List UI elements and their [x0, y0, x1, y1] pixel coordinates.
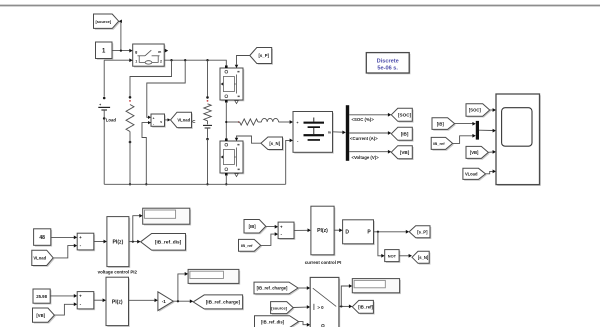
svg-text:[s_N]: [s_N]	[418, 255, 429, 260]
junction PI1 out	[132, 240, 134, 242]
svg-text:IB_ref: IB_ref	[241, 243, 253, 248]
wire gain to goto [IB_ref_charge]	[173, 300, 190, 302]
wire bus to goto [SOC]	[349, 114, 388, 116]
junction node A	[120, 49, 122, 51]
sum block S1	[79, 235, 96, 252]
filter inductor L1	[258, 121, 262, 123]
wire Q1 source to node B	[225, 103, 227, 139]
svg-text:g: g	[135, 50, 137, 54]
wire PI3 to PWM generator	[334, 229, 339, 231]
wire [IB] to sum3	[266, 225, 275, 227]
PI controller voltage control PI2	[108, 218, 130, 268]
powergui block Discrete	[368, 54, 411, 74]
goto tag [IB_ref_dis]	[142, 235, 187, 252]
from tag [IB] bottom	[245, 221, 267, 235]
wire charge to switch	[298, 287, 307, 289]
svg-text:[IB]: [IB]	[401, 132, 409, 137]
from tag [s_P] top	[251, 49, 273, 65]
voltage measurement block VM1	[152, 115, 166, 127]
goto tag [IB]	[393, 129, 414, 142]
wire PI out to goto [IB_ref_dis]	[129, 241, 138, 243]
wire dis to switch	[299, 322, 307, 325]
logic NOT block	[386, 251, 400, 263]
svg-text:VLoad: VLoad	[177, 118, 190, 123]
wire sum1 to PI controller	[94, 241, 104, 243]
svg-text:48: 48	[39, 235, 45, 241]
scope block	[497, 95, 541, 186]
svg-text:+: +	[280, 224, 283, 229]
wire voltage measurement minus to rail	[142, 123, 151, 185]
svg-text:5e-06 s.: 5e-06 s.	[377, 66, 398, 72]
svg-text:[source]: [source]	[271, 305, 287, 310]
svg-text:-1: -1	[162, 299, 167, 304]
wire 25.98 to sum2	[50, 295, 74, 297]
wire switch to goto [IB_ref]	[339, 305, 349, 307]
goto tag [s_P]	[411, 227, 432, 239]
wire Q2 source to rail	[225, 176, 227, 185]
svg-text:[IB_ref_dis]: [IB_ref_dis]	[261, 319, 285, 324]
svg-text:[VB]: [VB]	[470, 150, 479, 155]
from tag VLoad scope	[464, 170, 487, 181]
wire from [s_N] to Q2 gate	[237, 136, 261, 143]
wire [SOC] to scope	[490, 109, 493, 111]
svg-text:<Voltage (V)>: <Voltage (V)>	[352, 155, 380, 160]
sum block S3	[279, 223, 295, 240]
from tag [IB_ref_dis] bottom	[256, 317, 300, 327]
svg-text:[s_N]: [s_N]	[269, 141, 280, 146]
wire source to switch	[293, 306, 307, 308]
svg-text:+: +	[79, 294, 82, 299]
PI controller 2	[107, 279, 130, 327]
dc voltage source Load	[103, 60, 105, 96]
breaker m output stub	[165, 49, 168, 53]
svg-text:[IB_ref_charge]: [IB_ref_charge]	[257, 286, 288, 291]
junction node B	[225, 121, 227, 123]
goto tag [IB_ref_charge]	[195, 296, 244, 310]
breaker switch SW1	[134, 45, 166, 67]
svg-text:[IB]: [IB]	[249, 224, 257, 229]
wire switch to display 3	[341, 286, 349, 306]
svg-text:Discrete: Discrete	[377, 58, 399, 64]
svg-text:25.98: 25.98	[36, 294, 47, 299]
wire to voltage measurement plus	[147, 60, 185, 117]
wire rail to battery minus	[286, 140, 290, 184]
svg-text:NOT: NOT	[388, 254, 397, 259]
wire sum3 to PI controller 3	[294, 229, 308, 231]
wire bus to goto [VB]	[349, 151, 388, 153]
snubber capacitor C1	[207, 121, 209, 125]
goto tag [s_N]	[413, 253, 430, 265]
ground rail wire	[104, 183, 286, 185]
bus selector	[346, 105, 349, 161]
wire from [s_P] to Q1 gate	[237, 56, 250, 65]
snubber resistor R2	[206, 96, 209, 99]
from tag [VB] bottom	[34, 309, 56, 323]
goto tag VLoad	[172, 114, 193, 129]
PWM generator block D P	[344, 221, 375, 245]
wire [IB] to mux	[455, 123, 473, 125]
svg-text:PI(z): PI(z)	[112, 299, 123, 305]
wire constant 1 to breaker gate	[112, 50, 130, 52]
svg-text:<SOC (%)>: <SOC (%)>	[352, 117, 375, 122]
svg-text:[IB_ref_charge]: [IB_ref_charge]	[206, 300, 241, 305]
wire from node A to goto [source]	[120, 21, 122, 50]
from tag [s_N] top	[262, 138, 284, 151]
svg-text:[IB]: [IB]	[437, 121, 445, 126]
PI controller current control PI	[312, 208, 335, 257]
sum block S2	[79, 293, 96, 310]
top border line	[0, 5, 600, 7]
svg-text:PI(z): PI(z)	[317, 228, 328, 234]
wire NOT to goto [s_N]	[399, 255, 409, 257]
wire [VB] to sum2 minus	[54, 304, 74, 315]
wire [VB] to scope	[488, 151, 493, 153]
junction switch out	[340, 305, 342, 307]
wire PI out to display 1	[133, 216, 140, 242]
wire bus to goto [IB]	[349, 132, 388, 134]
wire Load to ground rail	[103, 118, 105, 184]
wire PI2 to gain	[129, 299, 155, 301]
from tag [source] bottom	[272, 303, 295, 315]
wire mux to scope	[479, 129, 493, 131]
junction PWM out	[377, 231, 379, 233]
junction gain out	[177, 300, 179, 302]
from tag [SOC] scope	[467, 105, 491, 117]
wire IB_ref to sum3 minus	[261, 234, 275, 245]
wire VM1 to goto VLoad	[165, 119, 168, 121]
svg-text:2: 2	[160, 60, 162, 64]
from tag [IB_ref_charge] bottom	[255, 283, 299, 295]
wire sum2 to PI controller 2	[94, 299, 103, 301]
from tag IB_ref scope	[433, 139, 454, 151]
svg-text:VLoad: VLoad	[33, 256, 46, 261]
svg-text:[IB_ref_dis]: [IB_ref_dis]	[155, 240, 182, 246]
wire gain to display 2	[178, 274, 185, 301]
goto tag [source]	[95, 15, 120, 29]
constant block 25.98	[34, 290, 51, 304]
svg-text:current control PI: current control PI	[305, 260, 342, 265]
svg-text:v: v	[160, 120, 162, 124]
wire L1 to battery plus	[279, 121, 290, 123]
svg-text:IB_ref: IB_ref	[433, 141, 445, 146]
display block 3	[354, 280, 401, 294]
svg-text:D: D	[345, 229, 349, 235]
svg-text:+: +	[99, 103, 101, 107]
wire VLoad to sum1 minus	[53, 246, 74, 258]
svg-text:[IB_ref]: [IB_ref]	[358, 305, 373, 310]
goto tag [VB]	[393, 147, 414, 160]
wire to load resistor branch	[130, 60, 172, 96]
from tag IB_ref bottom	[240, 241, 262, 253]
filter resistor R3	[238, 121, 240, 123]
svg-text:m: m	[328, 131, 331, 135]
gain block -1	[159, 293, 174, 312]
wire 48 to sum1	[51, 236, 74, 238]
mosfet Q1	[221, 69, 244, 101]
from tag [VB] scope	[467, 148, 489, 160]
svg-text:Load: Load	[106, 118, 117, 123]
svg-text:[s_P]: [s_P]	[258, 53, 269, 58]
battery block BT1	[294, 113, 334, 154]
svg-text:+: +	[79, 235, 82, 240]
svg-text:voltage control PI2: voltage control PI2	[98, 269, 138, 274]
wire PWM to goto [s_P]	[374, 231, 407, 233]
svg-text:[SOC]: [SOC]	[398, 113, 411, 118]
wire battery m to bus selector	[333, 131, 343, 133]
svg-text:[VB]: [VB]	[400, 150, 410, 155]
constant block 1	[97, 43, 114, 60]
svg-text:> 0: > 0	[317, 305, 324, 310]
svg-text:[VB]: [VB]	[36, 313, 45, 318]
from tag VLoad bottom	[33, 252, 54, 267]
goto tag [IB_ref]	[354, 302, 375, 315]
svg-text:<Current (A)>: <Current (A)>	[350, 136, 378, 141]
constant block 48	[35, 230, 52, 247]
RC snubber branch wire	[207, 60, 209, 96]
svg-text:[SOC]: [SOC]	[469, 108, 481, 113]
from tag [IB] scope	[433, 119, 456, 131]
wire PWM to NOT	[378, 232, 382, 256]
svg-text:+: +	[153, 116, 155, 120]
svg-text:m: m	[158, 50, 161, 54]
goto tag [SOC]	[393, 110, 414, 123]
load resistor R1	[129, 96, 132, 99]
mosfet Q2	[221, 142, 244, 174]
wire VLoad to scope	[486, 171, 493, 173]
mux	[476, 121, 479, 140]
svg-text:PI(z): PI(z)	[113, 239, 124, 245]
wire breaker port 2 bus	[164, 60, 226, 65]
svg-text:[s_P]: [s_P]	[417, 229, 428, 234]
svg-text:1: 1	[135, 60, 137, 64]
switch block	[312, 279, 341, 327]
svg-text:[source]: [source]	[95, 19, 111, 24]
wire IB_ref to mux	[453, 136, 473, 144]
display block 2	[189, 271, 240, 285]
display block 1	[144, 210, 191, 226]
wire dc source to breaker port 1	[104, 59, 129, 61]
svg-text:VLoad: VLoad	[465, 172, 478, 177]
